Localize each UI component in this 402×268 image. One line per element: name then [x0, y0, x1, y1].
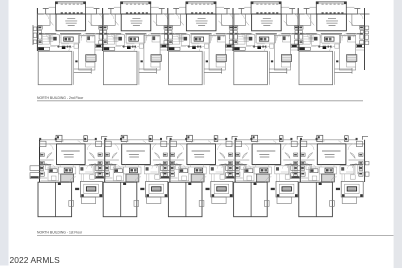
- svg-text:NORTH BUILDING - 2nd Floor: NORTH BUILDING - 2nd Floor: [37, 96, 84, 100]
- svg-text:2022 ARMLS: 2022 ARMLS: [10, 255, 61, 265]
- svg-text:NORTH BUILDING - 1st Floor: NORTH BUILDING - 1st Floor: [37, 231, 83, 235]
